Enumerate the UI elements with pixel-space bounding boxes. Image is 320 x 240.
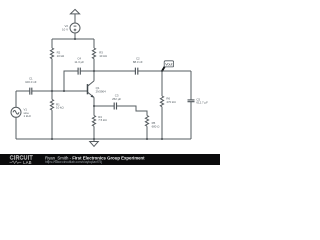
svg-text:10 V: 10 V [62,27,68,31]
capacitor C1 [30,88,32,95]
svg-text:10 kΩ: 10 kΩ [57,54,65,58]
resistor R4 [92,116,95,127]
wire collector node to C2 [94,70,135,72]
svg-text:100.0 nF: 100.0 nF [25,80,37,84]
wire ground bus [16,138,191,140]
wire right corner down to C5 [190,71,192,100]
voltage source V2 [70,23,80,33]
wire collector up [93,71,95,81]
wire R4 bottom to bus [93,126,95,139]
resistor R1 [50,99,53,110]
voltage source V1 sine [11,107,21,117]
power flag VCC arrow [70,9,79,23]
resistor R6 [160,96,163,107]
svg-text:680 Ω: 680 Ω [152,124,161,128]
wire R6 bottom to bus [161,107,163,139]
wire R6 top stub from Vout node [161,71,163,96]
wire V1 bottom to bus [15,117,17,139]
svg-text:10 kΩ: 10 kΩ [99,54,107,58]
wire R1 top stub [51,91,53,99]
wire C3 right to R5 top [117,106,147,116]
wire R2 bottom to base node [51,59,53,91]
wire R1 bottom to bus [51,110,53,139]
svg-text:612.7 µF: 612.7 µF [196,101,208,105]
capacitor C3 [114,103,116,110]
wire emitter node to C3 [94,105,114,107]
svg-text:1 kHz: 1 kHz [24,114,32,118]
resistor R3 [92,48,95,59]
resistor R5 [145,116,148,127]
svg-text:470 kΩ: 470 kΩ [166,100,176,104]
footer logo CircuitLab [10,156,34,165]
svg-text:10 kΩ: 10 kΩ [56,106,64,110]
wire C5 bottom to bus [190,102,192,139]
svg-text:252 µF: 252 µF [112,97,121,101]
resistor R2 [50,48,53,59]
svg-text:11.3 µF: 11.3 µF [74,60,84,64]
ground symbol [90,139,99,146]
wire emitter down [93,97,95,106]
wire R5 bottom to bus [146,126,148,139]
wire V1 riser [15,91,17,107]
transistor Q1 [88,81,95,98]
svg-text:Vout: Vout [165,63,172,67]
svg-text:7.5 kΩ: 7.5 kΩ [98,118,107,122]
junction dots [51,38,163,140]
wire R3 top stub [93,39,95,48]
svg-text:2N3904: 2N3904 [96,90,107,94]
capacitor C5 [188,100,195,102]
wire C2 to Vout node to right corner [138,70,191,72]
wire base line left of C1 [16,90,30,92]
wire R3 bottom to collector node [93,59,95,71]
node Vout flag [162,61,174,71]
svg-text:https://www.circuitlab.com/c/a: https://www.circuitlab.com/c/aykq4axf75j [45,160,102,164]
wire R4 top stub [93,106,95,116]
wire top rail [52,38,94,40]
wire C4 branch left stub [64,71,78,91]
svg-text:88.3 nF: 88.3 nF [133,60,143,64]
wire V2 to rail [74,33,76,39]
capacitor C2 [135,68,137,75]
wire base line C1 to Q1 base [32,90,88,92]
footer black bar [0,154,220,165]
capacitor C4 [78,68,80,75]
wire R2 top stub [51,39,53,48]
wire C4 right to collector node [80,70,94,72]
svg-text:LAB: LAB [23,160,32,165]
